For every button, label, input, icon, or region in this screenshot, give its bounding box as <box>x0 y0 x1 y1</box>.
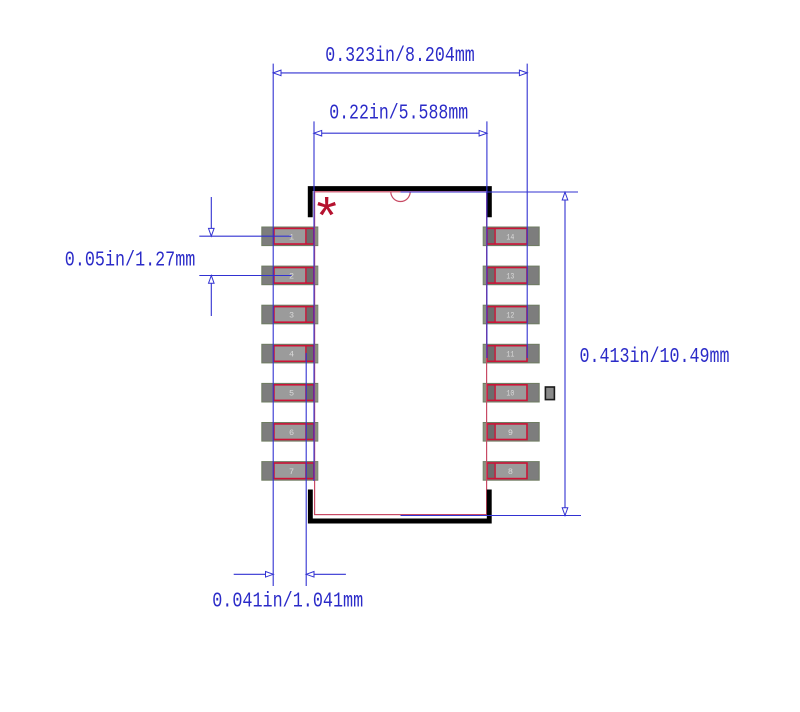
svg-text:8: 8 <box>508 467 513 477</box>
svg-text:1: 1 <box>289 232 294 242</box>
svg-text:10: 10 <box>506 389 514 399</box>
svg-text:13: 13 <box>506 271 514 281</box>
svg-text:5: 5 <box>289 389 294 399</box>
svg-text:3: 3 <box>289 311 294 321</box>
svg-text:2: 2 <box>289 271 294 281</box>
svg-text:0.22in/5.588mm: 0.22in/5.588mm <box>329 103 468 126</box>
svg-text:14: 14 <box>506 232 514 242</box>
svg-text:4: 4 <box>289 350 294 360</box>
svg-text:0.413in/10.49mm: 0.413in/10.49mm <box>580 346 730 369</box>
svg-text:6: 6 <box>289 428 294 438</box>
svg-text:0.041in/1.041mm: 0.041in/1.041mm <box>212 591 363 614</box>
svg-text:9: 9 <box>508 428 513 438</box>
svg-text:11: 11 <box>506 350 514 360</box>
svg-text:12: 12 <box>506 311 514 321</box>
svg-text:0.323in/8.204mm: 0.323in/8.204mm <box>325 45 475 68</box>
svg-text:*: * <box>317 187 337 245</box>
svg-text:7: 7 <box>289 467 294 477</box>
svg-text:0.05in/1.27mm: 0.05in/1.27mm <box>65 250 196 273</box>
